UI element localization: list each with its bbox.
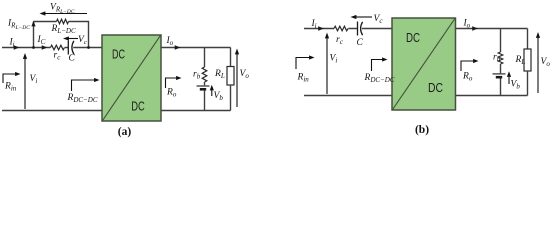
svg-text:(a): (a) (118, 126, 132, 138)
svg-text:(b): (b) (415, 124, 429, 136)
svg-text:DC: DC (406, 30, 420, 45)
svg-text:C: C (357, 38, 364, 48)
current arrow I_C (a) (42, 45, 48, 49)
node junction left (a) (32, 46, 35, 49)
wire left leg of RL-DC branch (a) (33, 22, 35, 48)
wire r_b to battery (b) (500, 64, 502, 73)
battery V_b cell (b) (493, 74, 506, 77)
diagonal divider (a) (103, 36, 161, 121)
output resistance arrow R_o (a) (166, 78, 177, 88)
voltage arrow V_b (b) (508, 77, 510, 84)
wire bottom rail input (b) (304, 95, 392, 97)
battery V_b cell (a) (197, 86, 210, 89)
diagonal divider (b) (393, 19, 455, 110)
voltage arrow V_b (a) (211, 90, 213, 96)
svg-text:DC: DC (112, 46, 125, 61)
wire output top rail (a) (161, 47, 231, 49)
resistor R_L box (a) (227, 67, 234, 86)
voltage arrow V_o (b) (537, 38, 539, 94)
voltage arrow V_o (a) (236, 54, 238, 107)
voltage arrow V_c (a) (69, 38, 79, 40)
wire R_L branch top (a) (230, 48, 232, 67)
input resistance arrow R_in (a) (3, 74, 16, 83)
input resistance arrow R_in (b) (296, 58, 310, 70)
wire battery to bottom rail (b) (500, 79, 502, 96)
wire battery to bottom rail (a) (204, 91, 206, 111)
wire rail to capacitor (a) (65, 47, 69, 49)
voltage arrow V_i (a) (24, 59, 26, 110)
resistor RL-DC (a) (57, 19, 69, 24)
node junction right (a) (87, 46, 90, 49)
wire r_b branch top (b) (500, 29, 502, 53)
resistor r_c (b) (334, 26, 348, 31)
wire top rail input (b) (304, 28, 334, 30)
resistor r_c (a) (51, 45, 65, 50)
wire output bottom rail (b) (456, 95, 528, 97)
wire rail to capacitor (b) (348, 28, 357, 30)
wire top branch left segment (a) (34, 21, 57, 23)
output resistance arrow R_o (b) (461, 61, 474, 71)
wire bottom rail input (a) (2, 110, 102, 112)
current arrow I_i (b) (318, 26, 324, 30)
wire capacitor to block (b) (362, 28, 392, 30)
converter block U1 (a) (102, 35, 161, 121)
voltage arrow V_c (b) (356, 16, 372, 18)
wire output top rail (b) (456, 28, 528, 30)
converter block U2 (b) (392, 18, 456, 110)
capacitor C2 (b) (358, 22, 363, 36)
wire R_L branch bottom (b) (527, 71, 529, 96)
resistor r_b (b) (498, 52, 503, 64)
current arrow I_o (a) (175, 45, 181, 49)
voltage arrow V_RL-DC (a) (45, 13, 87, 15)
wire top branch right segment (a) (69, 22, 89, 48)
wire r_b branch top (a) (204, 48, 206, 68)
current arrow I_RL-DC (a) (31, 21, 35, 27)
current arrow I_i (a) (14, 45, 20, 49)
wire R_L branch bottom (a) (230, 85, 232, 111)
wire R_L branch top (b) (527, 29, 529, 50)
voltage arrow V_i (b) (326, 38, 328, 94)
current arrow I_o (b) (472, 26, 478, 30)
wire capacitor to block (a) (73, 47, 102, 49)
svg-text:DC: DC (131, 99, 145, 114)
wire r_b to battery (a) (204, 82, 206, 85)
converter resistance arrow R_DC-DC (b) (372, 60, 383, 72)
resistor r_b (a) (202, 67, 207, 82)
capacitor C1 (a) (68, 41, 74, 55)
resistor R_L box (b) (524, 49, 531, 71)
wire top rail input (a) (2, 47, 51, 49)
svg-text:C: C (69, 54, 76, 64)
converter resistance arrow R_DC-DC (a) (72, 80, 95, 91)
svg-text:DC: DC (428, 80, 443, 95)
wire output bottom rail (a) (161, 110, 231, 112)
